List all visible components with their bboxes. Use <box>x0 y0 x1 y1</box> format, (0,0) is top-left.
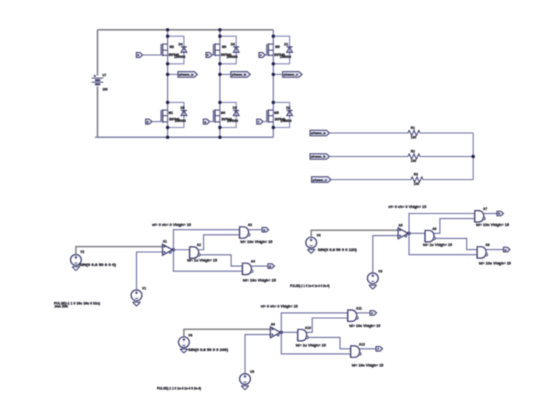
buffer A6 td=1u <box>425 230 434 241</box>
net tag phase_a (load side) <box>310 130 330 136</box>
wire: gate lead M6 <box>265 54 267 56</box>
svg-text:R2: R2 <box>411 150 415 154</box>
ground (V6) <box>180 348 188 350</box>
svg-text:SIN(0 0.8 50 0 0 240): SIN(0 0.8 50 0 0 240) <box>188 348 228 352</box>
nmos M1 IRF540 <box>160 110 162 122</box>
svg-text:1N4004: 1N4004 <box>280 55 291 59</box>
svg-text:V5: V5 <box>250 370 254 374</box>
wire: lower cell box column 1 <box>168 102 184 127</box>
diode D5 1N4004 <box>181 110 187 112</box>
schmitt buffer A1 <box>163 244 173 255</box>
buffer A10 td=1u <box>298 329 307 340</box>
resistor R2 100 <box>408 154 420 159</box>
wire: top DC rail <box>98 29 274 31</box>
ground (V5) <box>241 385 249 387</box>
svg-text:td= 10n Vhigh= 15: td= 10n Vhigh= 15 <box>476 223 509 227</box>
wire: A2 out to A3 input 2 <box>198 235 239 250</box>
svg-text:phase_c: phase_c <box>284 73 299 77</box>
svg-text:V3: V3 <box>378 269 382 273</box>
and gate A7 td=10n <box>475 211 484 222</box>
svg-text:R3: R3 <box>414 173 418 177</box>
nmos M3 IRF540 <box>212 44 214 55</box>
svg-text:d: d <box>147 120 149 124</box>
net tag phase_a (bridge output) <box>168 73 178 75</box>
svg-text:td= 10n Vhigh= 15: td= 10n Vhigh= 15 <box>240 240 272 244</box>
svg-text:A9: A9 <box>271 322 275 326</box>
wire: A4 out to port <box>251 265 268 267</box>
output port c <box>370 311 377 316</box>
wire: gate lead M1 <box>152 121 161 123</box>
nmos M5 IRF540 <box>266 110 268 122</box>
voltage source V4 sine <box>306 237 317 248</box>
svg-text:100: 100 <box>414 182 420 186</box>
input tag c (gate of M6) <box>259 53 265 58</box>
svg-text:vt= 0 vh= 0 Vhigh= 15: vt= 0 vh= 0 Vhigh= 15 <box>388 205 426 209</box>
svg-text:A2: A2 <box>197 243 201 247</box>
node A5 output <box>407 232 410 235</box>
wire: R1 to neutral bus <box>420 132 473 134</box>
svg-text:M2: M2 <box>170 45 175 49</box>
wire: neutral bus <box>472 133 474 180</box>
wire: A1 out up to A3 input 1 <box>173 230 239 250</box>
net tag phase_c (bridge output) <box>273 73 282 75</box>
svg-text:phase_b: phase_b <box>232 73 247 77</box>
voltage source V3 pulse <box>367 273 378 284</box>
svg-text:D1: D1 <box>284 42 288 46</box>
wire: V6 to A9 input 1 <box>184 329 271 337</box>
junction <box>166 73 169 76</box>
svg-text:td= 1u Vhigh= 15: td= 1u Vhigh= 15 <box>187 259 217 263</box>
and gate A4 td=10n <box>243 263 252 274</box>
wire: A11 out to port <box>356 312 370 314</box>
svg-text:M6: M6 <box>275 45 280 49</box>
svg-text:td= 1u Vhigh= 15: td= 1u Vhigh= 15 <box>296 343 326 347</box>
svg-text:D6: D6 <box>231 42 235 46</box>
svg-text:100: 100 <box>411 159 417 163</box>
svg-text:SIN(0 0.8 50 0 0 0): SIN(0 0.8 50 0 0 0) <box>79 263 116 267</box>
junction <box>218 73 221 76</box>
svg-text:PULSE(-1 1 0 1e-4 1e-4 0 2e-4): PULSE(-1 1 0 1e-4 1e-4 0 2e-4) <box>290 284 330 288</box>
svg-text:td= 1u Vhigh= 15: td= 1u Vhigh= 15 <box>423 243 452 247</box>
diode D4 1N4004 <box>181 46 187 48</box>
svg-text:1N4004: 1N4004 <box>280 119 291 123</box>
diode D6 1N4004 <box>233 46 239 48</box>
ground (V4) <box>307 248 315 250</box>
ground (V2) <box>72 266 80 268</box>
svg-text:A3: A3 <box>248 223 252 227</box>
wire: A3 out to port <box>248 229 262 231</box>
buffer A2 td=1u <box>190 247 199 258</box>
wire: A7 out to port <box>483 213 497 215</box>
svg-text:A10: A10 <box>305 326 311 330</box>
voltage source V5 pulse <box>240 374 251 385</box>
and gate A8 td=10n <box>477 247 486 258</box>
node A9 output <box>280 331 283 334</box>
voltage source V7 battery 100V <box>97 30 99 76</box>
and gate A11 td=10n <box>348 310 357 321</box>
voltage source V6 sine <box>179 337 190 348</box>
svg-text:R1: R1 <box>411 126 415 130</box>
wire: A1 out to A2 <box>173 249 190 251</box>
diode D1 1N4004 <box>287 46 293 48</box>
svg-text:A4: A4 <box>251 260 255 264</box>
wire: gate lead M2 <box>143 54 161 56</box>
svg-text:M5: M5 <box>274 111 279 115</box>
output port d <box>268 264 275 269</box>
svg-text:100: 100 <box>102 87 108 91</box>
wire: A12 out to port <box>359 348 376 350</box>
wire: A9 out up to A11 input 1 <box>281 313 348 332</box>
wire: gate lead M4 <box>210 121 214 123</box>
svg-text:td= 10n Vhigh= 15: td= 10n Vhigh= 15 <box>243 279 276 283</box>
wire: A9 out down to A12 input 2 <box>281 332 350 354</box>
net tag phase_b (load side) <box>310 154 330 160</box>
schmitt buffer A5 <box>398 228 408 239</box>
output port b <box>497 211 504 216</box>
svg-text:V7: V7 <box>102 73 106 77</box>
wire: lower cell box column 3 <box>273 102 289 127</box>
nmos M2 IRF540 <box>160 44 162 55</box>
svg-text:D3: D3 <box>233 106 237 110</box>
junction <box>272 73 275 76</box>
svg-text:PULSE(-1 1 0 1e-4 1e-4 0 2e-4): PULSE(-1 1 0 1e-4 1e-4 0 2e-4) <box>157 386 201 390</box>
wire: phase_a to R1 <box>330 132 409 134</box>
svg-text:b: b <box>498 212 500 216</box>
svg-text:1N4004: 1N4004 <box>226 55 237 59</box>
wire: phase_c to R3 <box>331 179 411 181</box>
svg-text:A1: A1 <box>163 240 167 244</box>
wire: A5 out up to A7 input 1 <box>409 214 475 234</box>
wire: upper cell box column 1 <box>168 36 184 64</box>
svg-text:1N4004: 1N4004 <box>175 119 186 123</box>
wire: lower cell box column 2 <box>220 102 236 127</box>
schmitt buffer A9 <box>270 327 280 338</box>
svg-text:100: 100 <box>411 136 417 140</box>
svg-text:D5: D5 <box>181 106 185 110</box>
svg-text:A7: A7 <box>483 207 487 211</box>
svg-text:phase_b: phase_b <box>311 155 326 159</box>
wire: A5 out down to A8 input 2 <box>409 233 477 254</box>
svg-text:A11: A11 <box>356 306 362 310</box>
wire: half-bridge column 2 <box>219 30 221 138</box>
output port f <box>376 347 383 352</box>
input tag a (gate of M2) <box>136 53 142 58</box>
wire: A10 inverted out to A12 input 1 <box>308 337 351 348</box>
net tag phase_b (bridge output) <box>220 73 231 75</box>
svg-text:phase_c: phase_c <box>312 178 327 182</box>
wire: A8 out to port <box>486 249 504 251</box>
wire: R3 to neutral bus <box>423 179 473 181</box>
diode D2 1N4004 <box>287 110 293 112</box>
svg-text:A8: A8 <box>485 243 489 247</box>
wire: gate lead M5 <box>263 121 267 123</box>
wire: R2 to neutral bus <box>420 156 473 158</box>
svg-text:M4: M4 <box>221 111 226 115</box>
resistor R1 100 <box>408 130 420 135</box>
svg-text:M3: M3 <box>222 45 227 49</box>
svg-text:vt= 0 vh= 0 Vhigh= 15: vt= 0 vh= 0 Vhigh= 15 <box>261 305 298 309</box>
svg-text:V6: V6 <box>188 334 192 338</box>
input tag e (gate of M4) <box>203 119 209 124</box>
wire: V4 to A5 input 1 <box>311 230 398 237</box>
wire: half-bridge column 3 <box>272 30 274 138</box>
svg-text:b: b <box>207 53 209 57</box>
wire: A2 inverted out to A4 input 1 <box>200 255 242 266</box>
and gate A3 td=10n <box>240 227 249 238</box>
svg-text:A6: A6 <box>432 227 436 231</box>
voltage source V1 pulse <box>131 290 142 301</box>
wire: V3 to A5 input 2 <box>373 236 398 273</box>
junction neutral <box>472 155 475 158</box>
wire: phase_b to R2 <box>330 156 409 158</box>
wire: V1 to A1 input 2 <box>137 252 163 290</box>
net tag phase_c (load side) <box>312 177 332 183</box>
svg-text:1N4004: 1N4004 <box>227 119 238 123</box>
wire: V2 to A1 input 1 <box>76 247 163 255</box>
and gate A12 td=10n <box>351 346 360 357</box>
resistor R3 100 <box>411 177 423 182</box>
nmos M4 IRF540 <box>212 110 214 122</box>
svg-text:f: f <box>378 347 379 351</box>
input tag b (gate of M3) <box>206 53 212 58</box>
ground (V3) <box>369 284 377 286</box>
svg-text:td= 10n Vhigh= 15: td= 10n Vhigh= 15 <box>352 364 384 368</box>
wire: half-bridge column 1 <box>167 30 169 138</box>
svg-text:vt= 0 vh= 0 Vhigh= 15: vt= 0 vh= 0 Vhigh= 15 <box>152 223 191 227</box>
svg-text:d: d <box>269 264 271 268</box>
wire: upper cell box column 3 <box>273 36 289 64</box>
wire: A6 out to A7 input 2 <box>434 219 475 234</box>
ground (V1) <box>133 301 141 303</box>
input tag d (gate of M1) <box>146 119 152 124</box>
wire: A9 out to A10 <box>280 331 297 333</box>
svg-text:phase_a: phase_a <box>179 73 194 77</box>
svg-text:V4: V4 <box>317 233 321 237</box>
svg-text:D2: D2 <box>286 106 290 110</box>
svg-text:A5: A5 <box>398 223 402 227</box>
voltage source V2 sine <box>71 255 82 266</box>
wire: A6 inverted out to A8 input 1 <box>436 238 478 249</box>
output port e <box>503 247 510 252</box>
svg-text:phase_a: phase_a <box>311 131 326 135</box>
svg-text:f: f <box>258 120 259 124</box>
svg-text:D4: D4 <box>179 42 183 46</box>
svg-text:1N4004: 1N4004 <box>174 55 185 59</box>
input tag f (gate of M5) <box>257 119 263 124</box>
svg-text:td= 10n Vhigh= 15: td= 10n Vhigh= 15 <box>479 261 511 265</box>
wire: gate lead M3 <box>212 54 213 56</box>
svg-text:A12: A12 <box>359 342 365 346</box>
nmos M6 IRF540 <box>266 44 268 55</box>
output port a <box>262 227 269 232</box>
wire: V5 to A9 input 2 <box>245 335 270 374</box>
svg-text:.tran 20m: .tran 20m <box>54 305 68 309</box>
diode D3 1N4004 <box>233 110 239 112</box>
svg-text:M1: M1 <box>169 111 174 115</box>
svg-text:V1: V1 <box>142 286 146 290</box>
svg-text:td= 10n Vhigh= 15: td= 10n Vhigh= 15 <box>349 324 380 328</box>
wire: A1 out down to A4 input 2 <box>173 250 242 271</box>
wire: A10 out to A11 input 2 <box>306 318 347 332</box>
node A1 output <box>172 248 175 251</box>
svg-text:SIN(0 0.8 50 0 0 120): SIN(0 0.8 50 0 0 120) <box>318 248 357 252</box>
wire: A5 out to A6 <box>408 232 425 234</box>
wire: upper cell box column 2 <box>220 36 236 64</box>
wire: bottom DC rail <box>95 136 273 138</box>
svg-text:V2: V2 <box>80 250 84 254</box>
